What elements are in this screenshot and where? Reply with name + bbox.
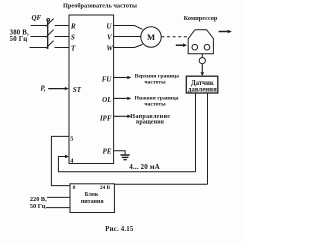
svg-text:OL: OL [102, 96, 111, 104]
arrow OL output [114, 97, 128, 99]
svg-text:4... 20 мА: 4... 20 мА [129, 163, 160, 171]
wire: sensor signal down [195, 94, 197, 172]
svg-text:S: S [71, 34, 75, 42]
wire: R to converter [55, 25, 70, 27]
svg-text:M: M [147, 32, 155, 42]
svg-text:P,: P, [40, 84, 45, 92]
wire: W output to motor [113, 44, 143, 47]
svg-text:питания: питания [81, 199, 104, 205]
compressor cylinder left [192, 44, 198, 50]
frequency converter box U1 [69, 15, 114, 164]
arrow: start command to ST [48, 88, 65, 90]
svg-text:T: T [71, 44, 76, 52]
svg-text:Рис. 4.15: Рис. 4.15 [105, 226, 134, 233]
svg-text:0: 0 [73, 185, 76, 191]
svg-text:50 Гц: 50 Гц [10, 36, 28, 43]
circuit breaker QF linkage bar [47, 20, 49, 49]
wire: 24V supply from power unit [114, 183, 207, 185]
svg-text:частоты: частоты [144, 101, 166, 107]
svg-text:Преобразователь частоты: Преобразователь частоты [63, 2, 137, 9]
svg-text:FU: FU [102, 75, 113, 83]
wire: terminal 5 to power unit 0 [51, 136, 70, 185]
svg-text:вращения: вращения [136, 120, 165, 126]
arrow into terminal 4 [65, 155, 69, 158]
svg-text:PE: PE [103, 147, 112, 155]
svg-text:50 Гц: 50 Гц [30, 203, 46, 210]
wire: phase T input [30, 47, 47, 49]
wire: V output to motor [113, 36, 141, 38]
svg-text:V: V [107, 34, 113, 42]
shaft coupling (dashed) motor to compressor [161, 36, 188, 38]
compressor body [188, 30, 213, 54]
wire: T to converter [55, 47, 70, 49]
wire: phase S input [31, 36, 47, 38]
wire: S to converter [55, 36, 70, 38]
svg-text:частоты: частоты [144, 79, 166, 85]
wire: sensor supply down [207, 94, 209, 185]
arrow: discharge from compressor [219, 31, 228, 33]
power supply box: Блок питания [70, 184, 114, 213]
svg-text:Компрессор: Компрессор [184, 15, 218, 22]
arrow: suction into compressor [176, 44, 183, 46]
wire: U output to motor [113, 26, 143, 30]
svg-text:давления: давления [188, 86, 217, 93]
arrow IPF output [114, 115, 128, 117]
svg-text:U: U [106, 23, 112, 31]
wire: 220V line 1 [47, 196, 70, 198]
wire: PE to ground [114, 151, 126, 155]
wire: phase R input [31, 25, 47, 27]
wire: 4-20 mA loop to terminal 4 [58, 157, 195, 172]
pressure sensor box: Датчик давления [186, 76, 218, 93]
arrow FU output [114, 77, 128, 79]
circuit breaker QF blade R [46, 19, 54, 27]
svg-text:ST: ST [73, 86, 82, 94]
wire: 220V line 2 [46, 207, 70, 209]
svg-text:W: W [106, 44, 113, 52]
svg-text:R: R [70, 23, 76, 31]
ground symbol [121, 154, 130, 156]
circuit breaker QF blade T [46, 41, 54, 49]
circuit breaker QF blade S [46, 30, 54, 38]
svg-text:5: 5 [70, 135, 74, 142]
motor M circle [141, 27, 161, 47]
arrow: down to pressure sensor [201, 64, 203, 73]
svg-text:IPF: IPF [99, 115, 112, 123]
svg-text:QF: QF [32, 14, 42, 22]
gauge tap circle [199, 58, 205, 64]
compressor cylinder right [204, 44, 210, 50]
svg-text:Блок: Блок [85, 192, 99, 198]
svg-text:24 В: 24 В [100, 185, 111, 191]
stem compressor to gauge circle [201, 54, 203, 58]
